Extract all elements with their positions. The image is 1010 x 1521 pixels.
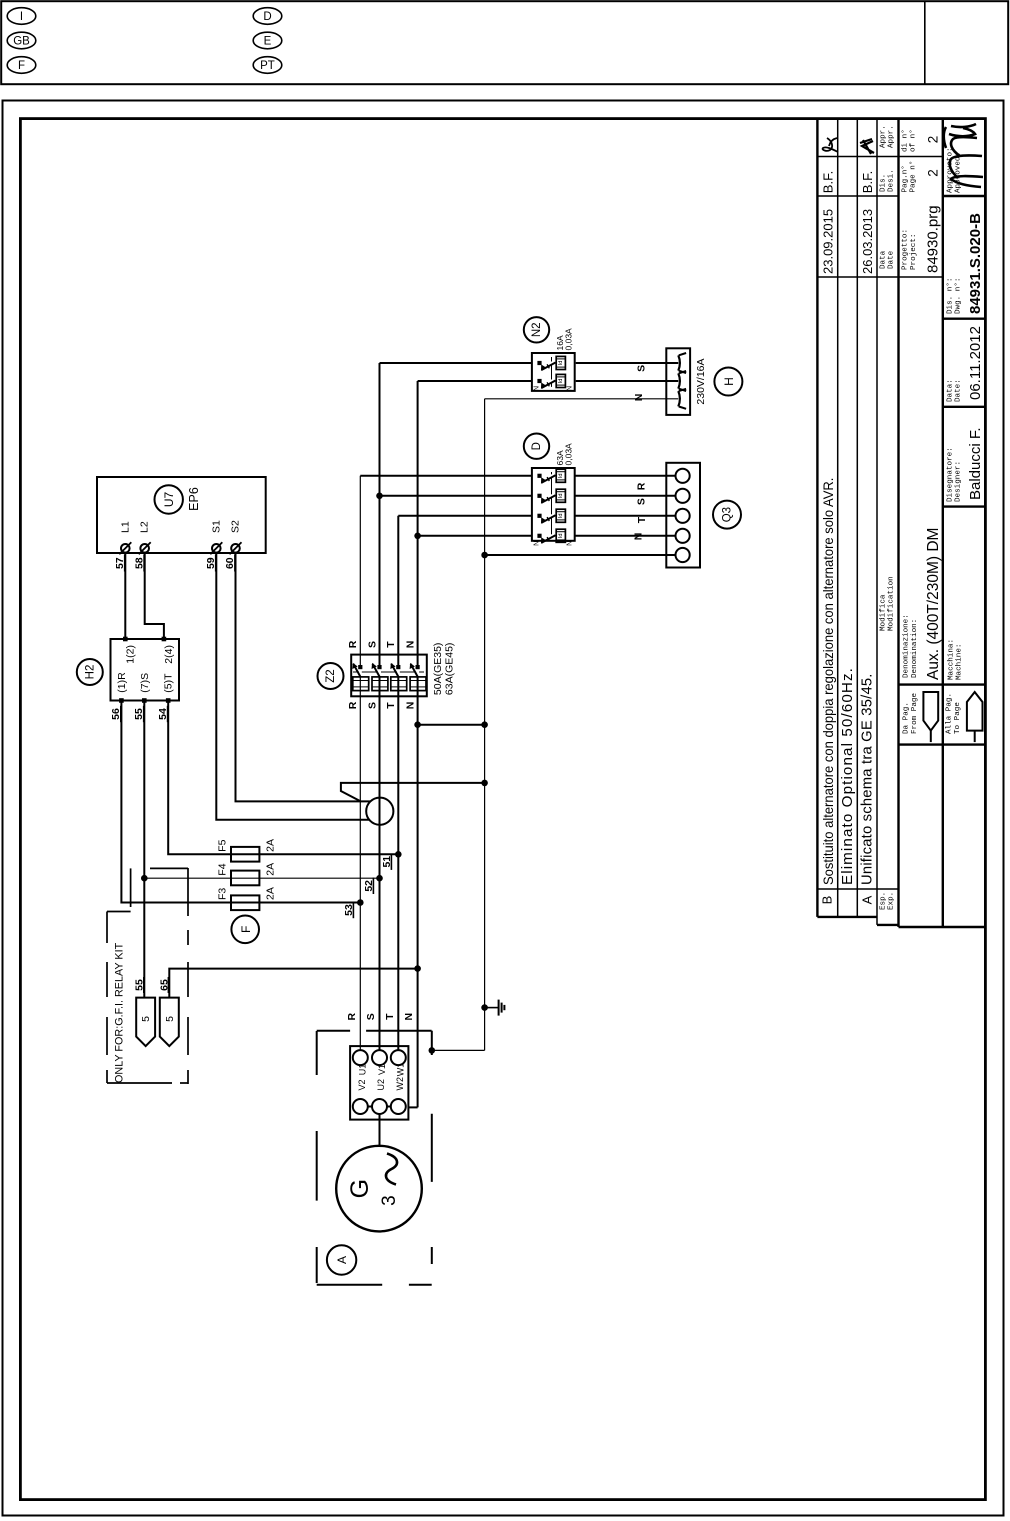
- svg-text:A: A: [860, 895, 875, 904]
- svg-text:Unificato schema tra GE 35/45.: Unificato schema tra GE 35/45.: [860, 673, 876, 885]
- svg-text:Exp.: Exp.: [888, 892, 896, 910]
- svg-text:N: N: [533, 386, 540, 391]
- svg-text:N2: N2: [531, 322, 543, 337]
- svg-text:N: N: [404, 641, 416, 649]
- svg-text:Data:: Data:: [947, 379, 955, 402]
- svg-text:H2: H2: [84, 665, 96, 680]
- svg-text:R: R: [347, 640, 359, 648]
- svg-text:N: N: [533, 541, 540, 546]
- svg-text:T: T: [385, 641, 397, 648]
- svg-text:Desi.: Desi.: [888, 169, 896, 192]
- svg-text:di n°: di n°: [901, 129, 910, 152]
- svg-text:L2: L2: [139, 521, 151, 533]
- svg-text:26.03.2013: 26.03.2013: [860, 209, 875, 274]
- svg-text:84930.prg: 84930.prg: [925, 205, 942, 273]
- svg-text:63A(GE45): 63A(GE45): [444, 643, 456, 696]
- svg-text:N: N: [633, 533, 645, 541]
- svg-text:Q3: Q3: [722, 507, 734, 522]
- svg-text:T: T: [384, 1013, 396, 1020]
- svg-text:S1: S1: [210, 520, 222, 533]
- svg-text:Denomination:: Denomination:: [911, 619, 919, 678]
- svg-text:Id: Id: [558, 473, 564, 478]
- svg-text:S: S: [636, 365, 648, 372]
- svg-text:Id: Id: [558, 513, 564, 518]
- svg-text:Balducci F.: Balducci F.: [967, 427, 984, 500]
- svg-text:2(4): 2(4): [163, 645, 175, 664]
- svg-text:Pag.n°: Pag.n°: [901, 165, 910, 192]
- svg-text:2: 2: [926, 136, 941, 144]
- svg-text:B: B: [820, 896, 835, 905]
- svg-text:2A: 2A: [265, 887, 277, 900]
- svg-text:Alla Pag.: Alla Pag.: [946, 693, 954, 734]
- svg-text:1(2): 1(2): [124, 645, 136, 664]
- svg-text:EP6: EP6: [187, 487, 201, 511]
- svg-text:Macchina:: Macchina:: [948, 639, 956, 680]
- svg-text:Appr.: Appr.: [880, 125, 888, 148]
- svg-text:N: N: [404, 702, 416, 710]
- svg-text:T: T: [385, 702, 397, 709]
- svg-text:W1: W1: [396, 1063, 406, 1077]
- svg-text:Page n°: Page n°: [909, 161, 918, 193]
- svg-text:5: 5: [164, 1016, 176, 1022]
- svg-text:S: S: [365, 1013, 377, 1020]
- svg-text:D: D: [531, 442, 543, 450]
- svg-text:Id: Id: [558, 533, 564, 538]
- svg-text:R: R: [347, 701, 359, 709]
- svg-text:F5: F5: [216, 839, 228, 851]
- svg-text:0,03A: 0,03A: [564, 328, 574, 351]
- svg-text:A: A: [335, 1256, 349, 1264]
- svg-text:PT: PT: [260, 60, 275, 72]
- svg-text:Approved:: Approved:: [955, 152, 963, 193]
- svg-text:(1)R: (1)R: [116, 672, 128, 693]
- svg-text:F4: F4: [216, 863, 228, 875]
- svg-text:Dwg. n°:: Dwg. n°:: [954, 278, 963, 314]
- svg-text:Machine:: Machine:: [956, 644, 964, 680]
- svg-text:I: I: [20, 11, 23, 23]
- svg-text:Id: Id: [558, 361, 564, 366]
- svg-text:V1: V1: [377, 1064, 387, 1075]
- svg-text:Modification: Modification: [888, 576, 896, 631]
- svg-text:N: N: [633, 394, 645, 402]
- svg-text:(7)S: (7)S: [139, 673, 151, 693]
- svg-text:L1: L1: [119, 521, 131, 533]
- svg-text:0,03A: 0,03A: [564, 443, 574, 466]
- svg-text:Esp.: Esp.: [880, 892, 888, 910]
- svg-text:5: 5: [140, 1016, 152, 1022]
- svg-text:B.F.: B.F.: [860, 171, 875, 193]
- svg-text:From Page: From Page: [911, 693, 919, 734]
- svg-text:ONLY FOR:G.F.I. RELAY KIT: ONLY FOR:G.F.I. RELAY KIT: [114, 942, 126, 1083]
- svg-text:Project:: Project:: [910, 234, 918, 270]
- svg-text:Id: Id: [558, 493, 564, 498]
- svg-text:23.09.2015: 23.09.2015: [821, 209, 836, 274]
- svg-text:Denominazione:: Denominazione:: [903, 614, 911, 678]
- svg-text:GB: GB: [13, 36, 30, 48]
- svg-text:N: N: [403, 1013, 415, 1021]
- svg-text:(5)T: (5)T: [163, 673, 175, 693]
- svg-text:06.11.2012: 06.11.2012: [967, 326, 984, 400]
- svg-text:Modifica: Modifica: [880, 594, 888, 631]
- svg-text:U2: U2: [376, 1079, 386, 1091]
- svg-text:B.F.: B.F.: [821, 171, 836, 193]
- svg-text:Designer:: Designer:: [955, 461, 963, 502]
- svg-text:S: S: [366, 702, 378, 709]
- svg-text:D: D: [263, 11, 271, 23]
- svg-text:T: T: [636, 516, 648, 523]
- svg-text:To Page: To Page: [954, 702, 962, 734]
- svg-text:Appr.: Appr.: [888, 125, 896, 148]
- svg-text:84931.S.020-B: 84931.S.020-B: [967, 213, 984, 314]
- svg-text:W2: W2: [395, 1077, 405, 1091]
- svg-text:50A(GE35): 50A(GE35): [432, 643, 444, 696]
- svg-text:Dis.: Dis.: [880, 174, 888, 192]
- svg-text:Aux. (400T/230M) DM: Aux. (400T/230M) DM: [925, 528, 942, 680]
- svg-text:Z2: Z2: [325, 669, 337, 682]
- svg-text:Progetto:: Progetto:: [902, 229, 910, 270]
- svg-text:2A: 2A: [265, 863, 277, 876]
- svg-text:F: F: [18, 60, 25, 72]
- svg-text:Disegnatore:: Disegnatore:: [947, 447, 955, 502]
- svg-text:2: 2: [926, 169, 941, 177]
- svg-text:F3: F3: [216, 888, 228, 900]
- svg-text:S: S: [636, 498, 648, 505]
- svg-text:2A: 2A: [265, 839, 277, 852]
- svg-text:Data: Data: [880, 250, 888, 269]
- svg-text:U1: U1: [358, 1064, 368, 1076]
- svg-text:Eliminato Optional 50/60Hz.: Eliminato Optional 50/60Hz.: [839, 667, 856, 885]
- svg-text:V2: V2: [357, 1079, 367, 1090]
- svg-text:G: G: [346, 1179, 374, 1198]
- svg-text:H: H: [722, 377, 736, 386]
- svg-text:N: N: [567, 541, 574, 546]
- svg-text:N: N: [567, 386, 574, 391]
- svg-text:R: R: [346, 1012, 358, 1020]
- svg-text:3: 3: [379, 1195, 400, 1206]
- svg-text:E: E: [264, 36, 272, 48]
- svg-text:Sostituito alternatore con dop: Sostituito alternatore con doppia regola…: [820, 478, 836, 885]
- svg-text:Id: Id: [558, 379, 564, 384]
- svg-text:of n°: of n°: [909, 129, 918, 152]
- svg-text:F: F: [239, 926, 253, 933]
- svg-text:S: S: [366, 641, 378, 648]
- svg-text:R: R: [636, 482, 648, 490]
- svg-text:Da Pag.: Da Pag.: [903, 702, 911, 734]
- svg-text:Date:: Date:: [955, 379, 963, 402]
- svg-text:Dis. n°:: Dis. n°:: [946, 278, 955, 314]
- svg-text:230V/16A: 230V/16A: [695, 358, 707, 404]
- svg-text:U7: U7: [162, 492, 176, 508]
- svg-text:S2: S2: [230, 520, 242, 533]
- svg-text:Date: Date: [888, 250, 896, 269]
